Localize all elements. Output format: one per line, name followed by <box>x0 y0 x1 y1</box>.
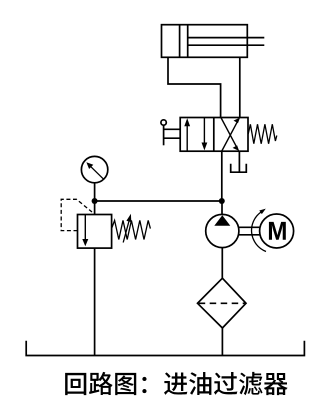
valve right position cross arrow 1 <box>221 118 239 152</box>
valve spring <box>248 124 277 143</box>
tank <box>26 341 304 356</box>
filter F1 body <box>198 278 247 328</box>
motor rotation arrow <box>252 209 266 252</box>
node junction right <box>219 198 225 204</box>
wire cylinder right port to valve B <box>239 57 241 117</box>
relief valve internal arrow <box>82 215 88 247</box>
pressure gauge needle <box>86 162 103 179</box>
pressure gauge body <box>81 156 107 182</box>
wire relief inlet <box>94 201 96 215</box>
valve U1 body <box>180 118 248 152</box>
relief adjustment arrow <box>123 214 131 243</box>
valve left position up arrow <box>184 118 190 151</box>
wire valve P to junction <box>221 151 223 201</box>
motor letter <box>269 222 286 240</box>
pump triangle <box>214 215 230 226</box>
valve T drain line <box>238 151 240 171</box>
relief valve V1 body <box>78 215 112 249</box>
valve actuator stem <box>163 125 165 145</box>
motor shaft <box>239 227 260 235</box>
caption 回路图：进油过滤器 <box>65 373 86 395</box>
wire cylinder left port to valve A <box>168 57 221 117</box>
motor M1 body <box>260 214 294 248</box>
filter element dashed <box>199 302 245 304</box>
relief pilot dashed line <box>61 199 92 230</box>
cylinder piston <box>180 25 188 58</box>
cylinder rod <box>188 38 265 46</box>
relief valve spring <box>112 220 151 239</box>
wire relief outlet to tank <box>94 248 96 355</box>
pump P1 body <box>206 214 239 247</box>
valve right position cross arrow 2 <box>222 118 240 152</box>
wire pressure line horizontal <box>95 200 222 202</box>
valve divider <box>213 118 215 152</box>
wire gauge stem <box>94 183 96 201</box>
valve left position down arrow <box>202 118 208 151</box>
wire pump outlet <box>221 201 223 214</box>
valve actuator links <box>164 129 181 138</box>
cylinder body <box>162 25 248 58</box>
drain tank symbol <box>231 164 247 173</box>
node junction left <box>92 198 98 204</box>
wire filter to tank <box>221 328 223 356</box>
valve manual actuator knob <box>161 120 166 125</box>
wire pump inlet <box>221 248 223 279</box>
